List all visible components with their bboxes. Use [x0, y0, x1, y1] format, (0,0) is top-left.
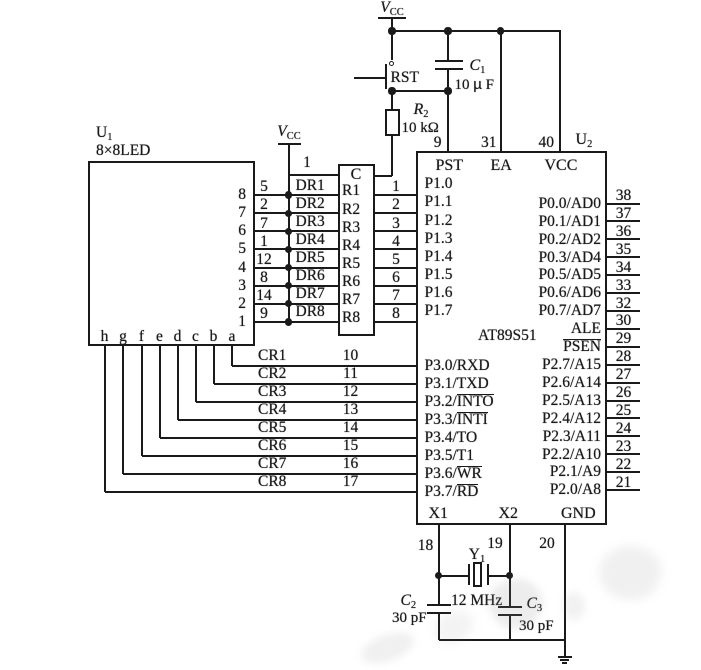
wire row 8 [255, 321, 338, 323]
wire CR6 [141, 346, 143, 456]
power VCC symbol top [380, 0, 403, 18]
wire pin 5 [375, 267, 416, 269]
resistor R2 [342, 201, 360, 218]
wire CR1 [231, 346, 233, 366]
wire ground bus [439, 639, 565, 641]
net label DR4 [296, 231, 325, 248]
designator U2 [576, 131, 593, 151]
ground [558, 656, 572, 658]
resistor R8 [342, 309, 360, 326]
junction [435, 572, 442, 579]
IC U2 AT89S51 [416, 151, 608, 525]
right pin stubs 38-21 [607, 203, 640, 205]
net label DR1 [296, 177, 325, 194]
pin labels P1.0-P1.7 [425, 175, 453, 192]
wire [375, 175, 393, 177]
wire pin 4 [375, 248, 416, 250]
pin labels right P0/P2 [539, 195, 601, 212]
capacitor C1 [447, 31, 449, 61]
pin labels bottom X1 X2 GND [429, 505, 449, 523]
net label DR2 [296, 195, 325, 212]
LED matrix column pin names h-a [101, 328, 109, 345]
pin 20 GND [564, 525, 566, 657]
junction [388, 27, 395, 34]
net label DR7 [296, 285, 325, 302]
resistor R7 [342, 291, 360, 308]
wire row 4 [255, 248, 338, 250]
crystal Y1 12MHz [439, 575, 470, 577]
wire CR3 [195, 346, 197, 402]
junction [506, 572, 513, 579]
net label DR8 [296, 303, 325, 320]
wire pin 2 [375, 212, 416, 214]
wire row 5 [255, 267, 338, 269]
pin 9 RST [447, 91, 449, 151]
resistor R4 [342, 237, 360, 254]
wire VCC rail [392, 30, 561, 32]
pin labels P3.0-P3.7 [425, 357, 490, 374]
junction DR4 [285, 246, 292, 253]
net label DR5 [296, 249, 325, 266]
wire CR2 [213, 346, 215, 384]
capacitor C2 30pF [438, 576, 440, 605]
wire pin 3 [375, 230, 416, 232]
pin 18 X1 [438, 525, 440, 576]
wire pin 1 [375, 194, 416, 196]
pin 19 X2 [509, 525, 511, 576]
wire CR7 [122, 346, 124, 474]
junction DR3 [285, 228, 292, 235]
net label DR6 [296, 267, 325, 284]
junction DR5 [285, 264, 292, 271]
wire row 6 [255, 285, 338, 287]
wire pin 8 [375, 321, 416, 323]
junction DR2 [285, 210, 292, 217]
wire row 1 [255, 194, 338, 196]
node 1 wire to resistor network [289, 174, 338, 176]
net label DR3 [296, 213, 325, 230]
wire row 2 [255, 212, 338, 214]
wire VCC column [288, 144, 290, 322]
switch RST [389, 61, 394, 66]
junction DR6 [285, 282, 292, 289]
resistor R6 [342, 273, 360, 290]
LED matrix U1 8x8LED [96, 124, 112, 144]
resistor R5 [342, 255, 360, 272]
power VCC symbol left [277, 123, 300, 143]
wire row 7 [255, 303, 338, 305]
wire row 3 [255, 230, 338, 232]
junction DR7 [285, 300, 292, 307]
wire pin 6 [375, 285, 416, 287]
junction node RST [388, 87, 395, 94]
pin 31 EA [500, 31, 502, 151]
wire [391, 18, 393, 31]
resistor R1 [342, 182, 360, 199]
resistor network C with R1-R8 [338, 164, 375, 336]
junction [497, 27, 504, 34]
pin 40 VCC [559, 31, 561, 151]
capacitor C3 30pF [509, 576, 511, 607]
resistor R3 [342, 219, 360, 236]
junction [444, 87, 451, 94]
resistor R2 [391, 91, 393, 109]
junction DR8 [285, 318, 292, 325]
junction [444, 27, 451, 34]
wire CR5 [159, 346, 161, 438]
LED matrix row pin names 8-1 [238, 186, 246, 203]
wire CR4 [177, 346, 179, 420]
wire [392, 90, 448, 92]
wire pin 7 [375, 303, 416, 305]
junction DR1 [285, 191, 292, 198]
wire CR8 [104, 346, 106, 492]
